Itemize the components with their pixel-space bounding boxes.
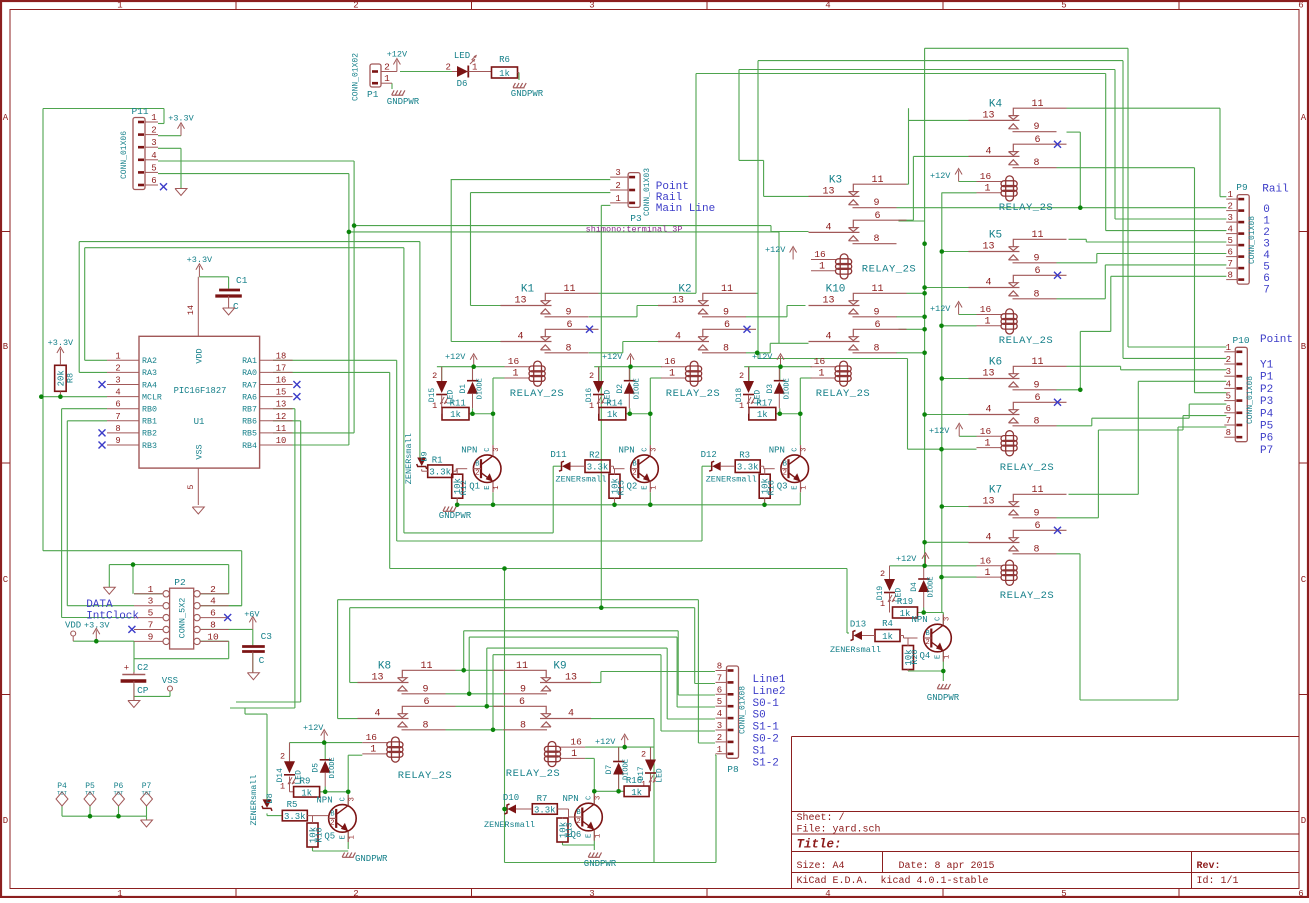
svg-text:Line1: Line1 bbox=[753, 674, 786, 686]
svg-text:1: 1 bbox=[1263, 216, 1270, 228]
svg-text:Id: 1/1: Id: 1/1 bbox=[1197, 875, 1239, 887]
svg-text:D4: D4 bbox=[910, 582, 919, 592]
svg-text:RA3: RA3 bbox=[142, 369, 157, 378]
svg-text:7: 7 bbox=[115, 412, 120, 422]
svg-text:1: 1 bbox=[571, 749, 577, 760]
svg-text:9: 9 bbox=[1033, 122, 1039, 133]
svg-text:P1: P1 bbox=[367, 89, 379, 100]
svg-text:Sheet: /: Sheet: / bbox=[797, 812, 845, 824]
svg-text:GNDPWR: GNDPWR bbox=[511, 89, 544, 99]
svg-text:GNDPWR: GNDPWR bbox=[439, 511, 472, 521]
svg-text:1: 1 bbox=[1226, 343, 1231, 353]
svg-text:5: 5 bbox=[717, 697, 722, 707]
svg-text:3: 3 bbox=[348, 797, 356, 801]
svg-text:+: + bbox=[124, 664, 129, 674]
svg-text:11: 11 bbox=[516, 661, 528, 672]
svg-text:1: 1 bbox=[615, 194, 620, 204]
svg-text:B: B bbox=[1301, 342, 1307, 352]
svg-text:R20: R20 bbox=[910, 649, 920, 664]
svg-text:K5: K5 bbox=[989, 230, 1002, 242]
svg-text:C: C bbox=[3, 575, 9, 585]
svg-text:CONN_01X08: CONN_01X08 bbox=[1248, 216, 1257, 264]
svg-text:E: E bbox=[484, 485, 492, 489]
svg-text:16: 16 bbox=[664, 356, 676, 367]
svg-text:P4: P4 bbox=[1260, 408, 1274, 420]
svg-text:Line2: Line2 bbox=[753, 686, 786, 698]
svg-text:3: 3 bbox=[944, 617, 952, 621]
svg-text:2: 2 bbox=[615, 181, 620, 191]
svg-text:18: 18 bbox=[276, 351, 287, 361]
svg-text:RELAY_2S: RELAY_2S bbox=[510, 388, 564, 400]
svg-text:4: 4 bbox=[825, 332, 831, 343]
svg-text:6: 6 bbox=[1034, 266, 1040, 277]
svg-text:MCLR: MCLR bbox=[142, 393, 162, 402]
svg-text:3.3k: 3.3k bbox=[429, 468, 451, 478]
svg-text:6: 6 bbox=[210, 608, 216, 619]
svg-text:B: B bbox=[577, 809, 581, 817]
svg-text:1: 1 bbox=[944, 655, 952, 659]
svg-text:3: 3 bbox=[801, 447, 809, 451]
svg-text:2: 2 bbox=[353, 889, 358, 898]
svg-text:9: 9 bbox=[115, 436, 120, 446]
svg-text:6: 6 bbox=[1034, 521, 1040, 532]
svg-text:D6: D6 bbox=[457, 79, 468, 89]
svg-text:11: 11 bbox=[1031, 357, 1043, 368]
svg-text:16: 16 bbox=[508, 356, 520, 367]
svg-text:D15: D15 bbox=[428, 388, 437, 403]
svg-text:1: 1 bbox=[880, 599, 885, 609]
svg-text:RA1: RA1 bbox=[242, 357, 257, 366]
svg-text:Size: A4: Size: A4 bbox=[797, 860, 845, 872]
svg-text:S0-2: S0-2 bbox=[753, 734, 779, 746]
svg-text:6: 6 bbox=[566, 320, 572, 331]
svg-text:11: 11 bbox=[563, 284, 575, 295]
svg-text:9: 9 bbox=[520, 684, 526, 695]
svg-text:1: 1 bbox=[717, 745, 722, 755]
svg-text:D13: D13 bbox=[850, 620, 866, 630]
svg-text:5: 5 bbox=[1263, 262, 1270, 274]
svg-text:K10: K10 bbox=[826, 284, 846, 296]
svg-text:DIODE: DIODE bbox=[623, 759, 631, 780]
svg-text:11: 11 bbox=[276, 424, 287, 434]
svg-text:6: 6 bbox=[1034, 135, 1040, 146]
svg-text:1: 1 bbox=[1227, 190, 1232, 200]
svg-text:8: 8 bbox=[1227, 271, 1232, 281]
svg-text:6: 6 bbox=[115, 400, 120, 410]
svg-text:1: 1 bbox=[117, 1, 122, 11]
svg-text:NPN: NPN bbox=[461, 446, 477, 456]
svg-text:D10: D10 bbox=[503, 793, 519, 803]
svg-text:R13: R13 bbox=[565, 822, 575, 837]
svg-text:5: 5 bbox=[1061, 1, 1066, 11]
svg-text:Main Line: Main Line bbox=[656, 203, 715, 215]
svg-text:7: 7 bbox=[717, 673, 722, 683]
svg-text:DATA: DATA bbox=[86, 599, 113, 611]
svg-text:R11: R11 bbox=[450, 399, 466, 409]
svg-text:6: 6 bbox=[717, 685, 722, 695]
svg-text:K9: K9 bbox=[553, 661, 566, 673]
svg-text:5: 5 bbox=[1226, 392, 1231, 402]
svg-text:6: 6 bbox=[1227, 248, 1232, 258]
svg-text:11: 11 bbox=[871, 284, 883, 295]
svg-text:KiCad E.D.A. kicad 4.0.1-stab: KiCad E.D.A. kicad 4.0.1-stable bbox=[797, 875, 989, 887]
svg-text:RB2: RB2 bbox=[142, 430, 157, 439]
svg-text:C: C bbox=[642, 447, 650, 451]
svg-text:9: 9 bbox=[1033, 380, 1039, 391]
svg-text:LED: LED bbox=[454, 51, 470, 61]
svg-text:RELAY_2S: RELAY_2S bbox=[1000, 462, 1054, 474]
svg-text:S0-1: S0-1 bbox=[753, 698, 780, 710]
svg-text:2: 2 bbox=[641, 750, 646, 760]
svg-text:3: 3 bbox=[615, 168, 620, 178]
svg-text:K4: K4 bbox=[989, 98, 1003, 110]
svg-text:8: 8 bbox=[1226, 428, 1231, 438]
svg-text:1: 1 bbox=[115, 351, 120, 361]
svg-text:RA2: RA2 bbox=[142, 357, 157, 366]
svg-text:RELAY_2S: RELAY_2S bbox=[506, 768, 560, 780]
svg-text:D: D bbox=[1301, 816, 1306, 826]
svg-text:RA0: RA0 bbox=[242, 369, 257, 378]
svg-text:1: 1 bbox=[669, 369, 675, 380]
svg-text:CONN_5X2: CONN_5X2 bbox=[178, 598, 188, 639]
svg-text:3: 3 bbox=[493, 447, 501, 451]
svg-text:3: 3 bbox=[595, 796, 603, 800]
svg-text:6: 6 bbox=[1226, 404, 1231, 414]
svg-text:VDD: VDD bbox=[65, 620, 81, 630]
svg-text:2: 2 bbox=[1227, 202, 1232, 212]
svg-text:2: 2 bbox=[577, 818, 581, 826]
svg-text:5: 5 bbox=[186, 484, 196, 489]
svg-text:PIC16F1827: PIC16F1827 bbox=[174, 386, 227, 396]
svg-text:9: 9 bbox=[565, 307, 571, 318]
svg-text:CONN_01X02: CONN_01X02 bbox=[352, 53, 361, 101]
svg-text:1: 1 bbox=[739, 401, 744, 411]
svg-text:File: yard.sch: File: yard.sch bbox=[797, 824, 881, 836]
svg-text:B: B bbox=[330, 810, 334, 818]
svg-text:Y1: Y1 bbox=[1260, 360, 1274, 372]
svg-text:+3.3V: +3.3V bbox=[187, 255, 213, 265]
svg-text:NPN: NPN bbox=[563, 794, 579, 804]
svg-text:1: 1 bbox=[432, 401, 437, 411]
svg-text:B: B bbox=[783, 461, 787, 469]
svg-text:RB3: RB3 bbox=[142, 442, 157, 451]
svg-text:DIODE: DIODE bbox=[477, 378, 485, 399]
svg-text:Point: Point bbox=[1260, 334, 1293, 346]
svg-text:8: 8 bbox=[520, 720, 526, 731]
svg-text:CP: CP bbox=[137, 685, 149, 696]
svg-text:1: 1 bbox=[148, 584, 154, 595]
svg-text:1k: 1k bbox=[607, 410, 618, 420]
svg-text:1: 1 bbox=[801, 485, 809, 489]
svg-text:3: 3 bbox=[717, 721, 722, 731]
svg-text:3.3k: 3.3k bbox=[587, 463, 609, 473]
svg-text:DIODE: DIODE bbox=[783, 378, 791, 399]
svg-text:6: 6 bbox=[1298, 1, 1303, 11]
svg-text:D7: D7 bbox=[605, 765, 614, 775]
svg-text:13: 13 bbox=[672, 296, 684, 307]
svg-text:DIODE: DIODE bbox=[329, 757, 337, 778]
svg-text:3: 3 bbox=[148, 596, 154, 607]
svg-text:10: 10 bbox=[207, 631, 219, 642]
svg-text:+12V: +12V bbox=[602, 352, 623, 362]
svg-text:4: 4 bbox=[825, 889, 830, 898]
svg-text:11: 11 bbox=[420, 661, 432, 672]
svg-text:ZENERsmall: ZENERsmall bbox=[706, 475, 757, 485]
svg-text:1k: 1k bbox=[450, 410, 461, 420]
svg-text:1k: 1k bbox=[301, 788, 312, 798]
svg-text:9: 9 bbox=[148, 631, 154, 642]
svg-text:C: C bbox=[792, 447, 800, 451]
svg-text:P7: P7 bbox=[1260, 445, 1273, 457]
svg-text:A: A bbox=[1301, 113, 1307, 123]
svg-text:7: 7 bbox=[1227, 259, 1232, 269]
svg-text:VSS: VSS bbox=[162, 676, 178, 686]
svg-text:E: E bbox=[339, 835, 347, 839]
svg-text:6: 6 bbox=[151, 176, 156, 186]
svg-text:C: C bbox=[586, 796, 594, 800]
svg-text:3: 3 bbox=[651, 447, 659, 451]
svg-text:13: 13 bbox=[822, 186, 834, 197]
svg-text:D16: D16 bbox=[585, 388, 594, 403]
svg-text:9: 9 bbox=[873, 307, 879, 318]
svg-text:R12: R12 bbox=[459, 480, 469, 495]
svg-text:P2: P2 bbox=[1260, 384, 1273, 396]
svg-text:2: 2 bbox=[330, 819, 334, 827]
svg-text:B: B bbox=[926, 630, 930, 638]
svg-text:16: 16 bbox=[980, 426, 992, 437]
svg-text:shimono:terminal_3P: shimono:terminal_3P bbox=[586, 225, 683, 235]
svg-text:VSS: VSS bbox=[195, 444, 205, 459]
svg-text:1: 1 bbox=[984, 438, 990, 449]
svg-text:RELAY_2S: RELAY_2S bbox=[398, 770, 452, 782]
svg-text:2: 2 bbox=[432, 371, 437, 381]
svg-text:K7: K7 bbox=[989, 485, 1002, 497]
svg-text:8: 8 bbox=[115, 424, 120, 434]
svg-text:GNDPWR: GNDPWR bbox=[927, 693, 960, 703]
svg-text:K3: K3 bbox=[829, 174, 842, 186]
svg-text:DIODE: DIODE bbox=[633, 378, 641, 399]
svg-text:Q1: Q1 bbox=[469, 482, 480, 492]
svg-text:+12V: +12V bbox=[595, 737, 616, 747]
svg-text:GNDPWR: GNDPWR bbox=[584, 859, 617, 869]
svg-text:Rail: Rail bbox=[1262, 184, 1288, 196]
svg-text:Q4: Q4 bbox=[920, 651, 931, 661]
svg-text:11: 11 bbox=[1031, 485, 1043, 496]
svg-text:16: 16 bbox=[366, 732, 378, 743]
svg-text:4: 4 bbox=[985, 405, 991, 416]
svg-text:K1: K1 bbox=[521, 284, 535, 296]
svg-text:RA4: RA4 bbox=[142, 381, 157, 390]
svg-text:16: 16 bbox=[814, 249, 826, 260]
svg-text:P5: P5 bbox=[1260, 421, 1273, 433]
svg-text:P9: P9 bbox=[1236, 182, 1248, 193]
svg-text:D12: D12 bbox=[701, 450, 717, 460]
svg-text:D1: D1 bbox=[459, 384, 468, 394]
svg-text:16: 16 bbox=[980, 555, 992, 566]
svg-text:2: 2 bbox=[633, 470, 637, 478]
svg-text:R8: R8 bbox=[66, 373, 76, 383]
svg-text:4: 4 bbox=[151, 151, 156, 161]
svg-text:CONN_01X06: CONN_01X06 bbox=[120, 131, 129, 179]
svg-text:6: 6 bbox=[874, 320, 880, 331]
svg-text:RELAY_2S: RELAY_2S bbox=[999, 335, 1053, 347]
svg-text:7: 7 bbox=[1226, 416, 1231, 426]
svg-text:+12V: +12V bbox=[930, 304, 951, 314]
svg-text:4: 4 bbox=[825, 1, 830, 11]
svg-text:13: 13 bbox=[822, 296, 834, 307]
svg-text:4: 4 bbox=[825, 222, 831, 233]
svg-text:E: E bbox=[792, 485, 800, 489]
svg-text:11: 11 bbox=[1031, 230, 1043, 241]
svg-text:8: 8 bbox=[723, 343, 729, 354]
svg-text:+12V: +12V bbox=[929, 426, 950, 436]
svg-text:+12V: +12V bbox=[765, 245, 786, 255]
svg-text:R3: R3 bbox=[739, 451, 750, 461]
svg-text:+12V: +12V bbox=[930, 171, 951, 181]
svg-text:D19: D19 bbox=[876, 586, 885, 601]
svg-text:1k: 1k bbox=[631, 788, 642, 798]
svg-text:R14: R14 bbox=[606, 399, 622, 409]
svg-text:NPN: NPN bbox=[619, 446, 635, 456]
svg-text:8: 8 bbox=[873, 343, 879, 354]
svg-text:RB5: RB5 bbox=[242, 430, 257, 439]
svg-text:R18: R18 bbox=[767, 480, 777, 495]
svg-text:9: 9 bbox=[723, 307, 729, 318]
svg-text:7: 7 bbox=[1263, 285, 1270, 297]
svg-text:E: E bbox=[935, 655, 943, 659]
svg-text:CONN_01X08: CONN_01X08 bbox=[739, 686, 748, 734]
svg-text:RELAY_2S: RELAY_2S bbox=[666, 388, 720, 400]
svg-text:2: 2 bbox=[880, 569, 885, 579]
svg-text:R19: R19 bbox=[897, 597, 913, 607]
svg-text:S0: S0 bbox=[753, 710, 766, 722]
svg-text:0: 0 bbox=[1263, 204, 1270, 216]
svg-text:5: 5 bbox=[148, 608, 154, 619]
svg-text:3.3k: 3.3k bbox=[534, 806, 556, 816]
svg-text:16: 16 bbox=[276, 376, 287, 386]
svg-text:3: 3 bbox=[115, 376, 120, 386]
svg-text:2: 2 bbox=[384, 62, 390, 73]
svg-text:4: 4 bbox=[985, 278, 991, 289]
svg-text:D8: D8 bbox=[265, 793, 275, 803]
svg-text:RB0: RB0 bbox=[142, 406, 157, 415]
svg-text:8: 8 bbox=[873, 234, 879, 245]
svg-text:4: 4 bbox=[985, 533, 991, 544]
svg-text:1: 1 bbox=[818, 369, 824, 380]
svg-text:C3: C3 bbox=[261, 631, 273, 642]
svg-text:P2: P2 bbox=[174, 577, 186, 588]
svg-text:2: 2 bbox=[210, 584, 216, 595]
svg-text:1: 1 bbox=[472, 63, 477, 73]
svg-text:3: 3 bbox=[1263, 239, 1270, 251]
svg-text:CONN_01X08: CONN_01X08 bbox=[1246, 376, 1255, 424]
svg-text:R9: R9 bbox=[300, 777, 311, 787]
svg-text:NPN: NPN bbox=[912, 615, 928, 625]
svg-text:R17: R17 bbox=[756, 399, 772, 409]
svg-text:RA7: RA7 bbox=[242, 381, 257, 390]
svg-text:D9: D9 bbox=[420, 451, 430, 461]
svg-text:1k: 1k bbox=[499, 69, 510, 79]
svg-text:U1: U1 bbox=[194, 417, 205, 427]
svg-text:D5: D5 bbox=[312, 763, 321, 773]
svg-text:1: 1 bbox=[370, 745, 376, 756]
svg-text:2: 2 bbox=[446, 63, 451, 73]
svg-text:GNDPWR: GNDPWR bbox=[387, 97, 420, 107]
svg-text:4: 4 bbox=[210, 596, 216, 607]
svg-text:8: 8 bbox=[1033, 416, 1039, 427]
svg-text:1: 1 bbox=[984, 568, 990, 579]
svg-text:3.3k: 3.3k bbox=[737, 463, 759, 473]
svg-text:8: 8 bbox=[1033, 289, 1039, 300]
svg-text:CONN_01X03: CONN_01X03 bbox=[643, 168, 652, 216]
svg-text:6: 6 bbox=[1034, 393, 1040, 404]
svg-text:6: 6 bbox=[423, 697, 429, 708]
svg-text:12: 12 bbox=[276, 412, 287, 422]
svg-text:13: 13 bbox=[982, 369, 994, 380]
svg-text:3: 3 bbox=[1227, 213, 1232, 223]
svg-text:4: 4 bbox=[1263, 250, 1270, 262]
svg-text:4: 4 bbox=[568, 709, 574, 720]
svg-text:RB6: RB6 bbox=[242, 418, 257, 427]
svg-text:B: B bbox=[633, 461, 637, 469]
svg-text:C: C bbox=[233, 301, 239, 312]
svg-text:8: 8 bbox=[1033, 158, 1039, 169]
svg-text:P1: P1 bbox=[1260, 372, 1274, 384]
svg-text:RELAY_2S: RELAY_2S bbox=[999, 202, 1053, 214]
svg-text:D11: D11 bbox=[550, 450, 566, 460]
svg-text:7: 7 bbox=[148, 620, 154, 631]
svg-text:1: 1 bbox=[151, 113, 156, 123]
svg-text:17: 17 bbox=[276, 363, 287, 373]
svg-text:9: 9 bbox=[873, 198, 879, 209]
svg-text:1: 1 bbox=[493, 485, 501, 489]
svg-text:RA6: RA6 bbox=[242, 393, 257, 402]
svg-text:ZENERsmall: ZENERsmall bbox=[830, 645, 881, 655]
svg-text:P3: P3 bbox=[630, 213, 642, 224]
svg-text:+12V: +12V bbox=[303, 723, 324, 733]
svg-text:C: C bbox=[339, 797, 347, 801]
svg-text:P3: P3 bbox=[1260, 396, 1273, 408]
svg-text:+12V: +12V bbox=[445, 352, 466, 362]
svg-text:P8: P8 bbox=[727, 764, 739, 775]
svg-text:B: B bbox=[475, 461, 479, 469]
svg-text:TST: TST bbox=[57, 790, 68, 797]
svg-text:2: 2 bbox=[475, 470, 479, 478]
svg-text:5: 5 bbox=[151, 163, 156, 173]
svg-text:2: 2 bbox=[280, 751, 285, 761]
svg-text:1: 1 bbox=[819, 262, 825, 273]
svg-text:D: D bbox=[3, 816, 8, 826]
svg-text:R6: R6 bbox=[499, 55, 510, 65]
svg-text:R2: R2 bbox=[589, 451, 600, 461]
svg-text:+3.3V: +3.3V bbox=[84, 620, 110, 630]
svg-text:8: 8 bbox=[565, 343, 571, 354]
svg-text:C: C bbox=[935, 617, 943, 621]
svg-text:C: C bbox=[484, 447, 492, 451]
svg-text:3.3k: 3.3k bbox=[284, 812, 306, 822]
svg-text:RELAY_2S: RELAY_2S bbox=[1000, 590, 1054, 602]
svg-text:K6: K6 bbox=[989, 357, 1002, 369]
svg-text:VDD: VDD bbox=[195, 348, 205, 363]
svg-text:RB1: RB1 bbox=[142, 418, 157, 427]
svg-text:4: 4 bbox=[985, 146, 991, 157]
svg-text:4: 4 bbox=[517, 332, 523, 343]
svg-text:Date: 8 apr 2015: Date: 8 apr 2015 bbox=[899, 861, 995, 872]
svg-text:4: 4 bbox=[1226, 379, 1231, 389]
svg-text:3: 3 bbox=[589, 889, 594, 898]
svg-text:1: 1 bbox=[595, 834, 603, 838]
svg-text:3: 3 bbox=[151, 138, 156, 148]
